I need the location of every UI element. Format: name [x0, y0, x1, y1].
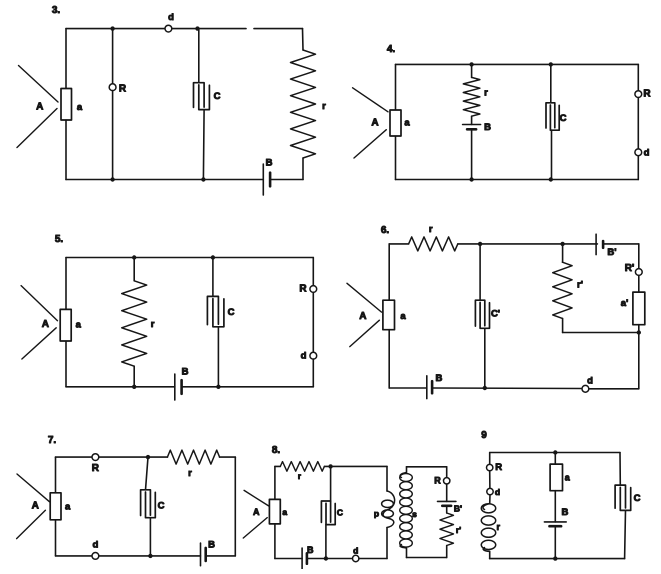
wire top (fig4) — [396, 63, 639, 65]
wire C lead bottom (fig8) — [325, 525, 327, 559]
battery B (fig9) — [544, 507, 568, 526]
svg-text:5.: 5. — [55, 234, 64, 245]
figure label 8 — [272, 445, 281, 456]
wire bottom left (fig6) — [389, 387, 427, 389]
wire r' lead bottom (fig8) — [446, 546, 448, 558]
coil s (fig8) — [400, 473, 417, 549]
wire left upper (fig7) — [55, 457, 57, 493]
contact d (fig7) — [92, 539, 99, 559]
svg-text:B: B — [307, 545, 314, 555]
svg-text:A: A — [371, 117, 378, 128]
svg-text:a': a' — [621, 298, 629, 309]
svg-text:C: C — [634, 493, 641, 504]
node d (fig3) — [165, 12, 174, 32]
contact R (fig8) — [434, 475, 450, 485]
wire r' lead bottom (fig6) — [562, 318, 564, 332]
antenna A (fig4) — [353, 88, 388, 158]
svg-text:B: B — [266, 158, 273, 169]
contact d (fig6) — [582, 376, 593, 393]
wire bottom left (fig8) — [275, 558, 302, 560]
wire left bottom (fig9) — [489, 551, 491, 558]
capacitor C' (fig6) — [475, 300, 500, 328]
wire C lead bottom (fig3) — [202, 110, 205, 180]
junction bottom-R (fig3) — [110, 177, 114, 181]
svg-text:C: C — [560, 113, 567, 124]
svg-text:B: B — [435, 373, 442, 384]
wire left upper (fig8) — [274, 466, 276, 499]
resistor r (fig7) — [167, 450, 219, 479]
wire right middle (fig4) — [637, 98, 639, 149]
antenna A (fig7) — [17, 474, 50, 539]
svg-text:B': B' — [454, 504, 462, 514]
junction top-rB (fig4) — [469, 62, 473, 66]
resistor box a (fig7) — [50, 493, 71, 520]
wire bottom left (fig5) — [66, 386, 175, 388]
svg-text:A: A — [36, 102, 43, 113]
figure label 6 — [381, 225, 390, 236]
svg-text:R': R' — [625, 263, 635, 274]
wire bottom left (fig7) — [56, 555, 93, 557]
wire bottom (fig4) — [396, 179, 639, 181]
junction bottom-C (fig4) — [549, 177, 553, 181]
svg-text:R: R — [92, 463, 100, 474]
wire right upper (fig9) — [619, 453, 621, 486]
wire r'-a' link (fig6) — [563, 332, 639, 334]
wire right upper (fig8) — [386, 466, 388, 491]
wire C lead top (fig4) — [550, 64, 552, 102]
contact R (fig4) — [635, 89, 651, 100]
svg-text:s: s — [412, 509, 417, 519]
wire right lower (fig9) — [624, 510, 627, 558]
antenna A (fig8) — [243, 490, 268, 538]
svg-text:A: A — [253, 507, 260, 517]
resistor box a (fig5) — [60, 309, 81, 341]
svg-text:C: C — [214, 91, 221, 102]
figure label 4 — [387, 44, 396, 55]
wire right lower (fig5) — [312, 359, 314, 387]
wire right lower (fig4) — [637, 156, 639, 180]
wire bottom mid (fig8) — [307, 558, 352, 560]
contact R' (fig6) — [625, 263, 643, 276]
resistor r (fig4) — [463, 77, 488, 116]
junction top-C (fig8) — [328, 464, 332, 468]
coil p (fig8) — [374, 491, 395, 528]
wire right upper (fig3) — [302, 29, 305, 50]
figure label 9 — [481, 430, 487, 441]
wire sec left top (fig8) — [406, 467, 408, 473]
resistor r (fig6) — [409, 224, 458, 251]
contact R (fig9) — [487, 462, 503, 473]
junction top-R (fig3) — [110, 26, 114, 30]
contact d (fig8) — [353, 545, 359, 561]
wire r' lead top (fig6) — [562, 244, 564, 262]
wire branch R lower (fig3) — [112, 91, 114, 180]
junction bottom-C (fig8) — [324, 556, 328, 560]
junction top-C (fig5) — [211, 255, 215, 259]
resistor box a' (fig6) — [621, 292, 645, 325]
svg-text:9: 9 — [481, 430, 487, 441]
wire right upper (fig6) — [638, 244, 640, 269]
wire top right (fig8) — [324, 465, 387, 467]
junction bottom-rB (fig4) — [469, 177, 473, 181]
wire left lower (fig7) — [55, 520, 57, 556]
wire right upper (fig5) — [312, 258, 314, 286]
contact R (fig5) — [299, 284, 316, 295]
wire a-battery (fig9) — [554, 491, 556, 522]
battery B (fig7) — [201, 539, 216, 565]
wire top mid (fig6) — [458, 243, 598, 245]
capacitor C (fig3) — [194, 83, 221, 110]
figure label 3 — [52, 5, 61, 16]
junction bottom-a (fig9) — [553, 556, 557, 560]
wire left upper (fig4) — [395, 64, 397, 110]
figure label 7 — [48, 435, 57, 446]
junction top-a (fig9) — [553, 450, 557, 454]
wire left lower (fig3) — [65, 120, 67, 180]
wire top right (fig7) — [220, 456, 236, 458]
wire r lead bottom (fig5) — [133, 366, 135, 387]
resistor box a (fig4) — [390, 110, 410, 136]
svg-text:r: r — [497, 522, 501, 532]
wire top (fig5) — [66, 257, 313, 259]
wire C lead top (fig8) — [330, 466, 332, 501]
battery B (fig3) — [263, 158, 272, 196]
battery B (fig5) — [175, 367, 189, 401]
svg-text:R: R — [495, 462, 502, 473]
junction bottom-C (fig7) — [148, 554, 152, 558]
svg-text:7.: 7. — [48, 435, 57, 446]
svg-text:3.: 3. — [52, 5, 61, 16]
junction bottom-r (fig5) — [132, 385, 136, 389]
wire sec left bottom (fig8) — [406, 548, 408, 558]
wire C' lead top (fig6) — [479, 244, 481, 300]
antenna A (fig6) — [347, 283, 382, 346]
svg-text:d: d — [353, 545, 358, 555]
resistor box a (fig8) — [269, 499, 287, 524]
wire right lower (fig6) — [638, 325, 640, 389]
battery B (fig6) — [427, 373, 443, 399]
wire C lead top (fig7) — [146, 457, 149, 490]
svg-text:d: d — [495, 487, 500, 497]
svg-text:a: a — [76, 320, 82, 331]
capacitor C (fig8) — [321, 501, 343, 525]
contact R (fig3) — [109, 84, 127, 95]
svg-text:C: C — [158, 500, 165, 511]
resistor box a (fig3) — [61, 89, 83, 121]
battery B (fig4) — [463, 122, 491, 133]
battery B (fig8) — [302, 545, 314, 569]
resistor r (fig8) — [280, 462, 324, 481]
wire bottom right (fig5) — [182, 386, 314, 388]
svg-text:d: d — [644, 147, 650, 158]
junction bottom-C' (fig6) — [483, 386, 487, 390]
junction top-C (fig4) — [549, 62, 553, 66]
antenna A (fig3) — [17, 66, 58, 148]
wire sec right upper (fig8) — [446, 467, 448, 478]
wire C lead bottom (fig7) — [149, 518, 151, 556]
wire C' lead bottom (fig6) — [484, 328, 486, 388]
figure label 5 — [55, 234, 64, 245]
contact d (fig5) — [301, 351, 317, 362]
capacitor C (fig4) — [546, 103, 567, 130]
svg-text:R: R — [434, 475, 441, 485]
wire battery-right (fig3) — [270, 179, 303, 181]
wire top right (fig6) — [603, 243, 639, 245]
wire bottom right (fig6) — [589, 388, 639, 390]
svg-text:a: a — [400, 311, 406, 322]
capacitor C (fig7) — [141, 490, 165, 518]
svg-text:r: r — [484, 88, 488, 99]
svg-text:d: d — [168, 12, 174, 23]
junction bottom-C (fig3) — [201, 177, 205, 181]
svg-text:p: p — [374, 509, 379, 519]
wire C lead bottom (fig4) — [551, 130, 553, 179]
resistor r (fig5) — [122, 281, 155, 366]
wire right middle (fig5) — [312, 292, 314, 352]
wire left mid (fig9) — [489, 471, 491, 488]
svg-text:C: C — [337, 508, 343, 518]
junction top-C' (fig6) — [478, 242, 482, 246]
junction top-C (fig7) — [146, 455, 150, 459]
wire left lower (fig6) — [388, 330, 390, 388]
wire right (fig7) — [234, 457, 236, 556]
resistor box a (fig6) — [383, 300, 406, 330]
svg-text:d: d — [301, 351, 307, 362]
contact R (fig7) — [92, 454, 100, 474]
resistor box a (fig9) — [550, 464, 571, 491]
wire C lead top (fig5) — [212, 258, 214, 297]
contact d (fig9) — [487, 487, 500, 497]
svg-text:r: r — [298, 472, 301, 481]
svg-text:B: B — [208, 539, 215, 550]
svg-text:C: C — [228, 307, 235, 318]
wire left lower (fig5) — [65, 341, 67, 387]
svg-text:r: r — [429, 224, 433, 235]
wire top left (fig7) — [56, 456, 93, 458]
svg-text:B': B' — [607, 247, 616, 258]
svg-text:4.: 4. — [387, 44, 396, 55]
wire C lead top (fig3) — [198, 29, 200, 83]
wire rB lead bottom (fig4) — [471, 129, 473, 179]
wire rB lead top (fig4) — [471, 64, 473, 77]
junction a'-r' (fig6) — [637, 330, 641, 334]
wire left lower (fig9) — [489, 495, 491, 504]
svg-text:a: a — [77, 102, 83, 113]
resistor r (fig3) — [291, 50, 327, 158]
wire right upper (fig4) — [637, 64, 639, 90]
wire top (fig8 sec) — [407, 466, 447, 468]
svg-text:R: R — [299, 284, 307, 295]
svg-text:d: d — [92, 539, 98, 550]
wire top left corner (fig8) — [275, 465, 280, 467]
wire top (fig9) — [490, 452, 620, 454]
wire bottom mid (fig7) — [99, 555, 201, 557]
junction top-r' (fig6) — [560, 242, 564, 246]
svg-text:a: a — [404, 117, 410, 128]
svg-text:a: a — [65, 502, 71, 513]
svg-text:6.: 6. — [381, 225, 390, 236]
svg-text:B: B — [561, 507, 568, 518]
wire left upper (fig6) — [388, 244, 390, 300]
wire r-battery (fig4) — [471, 116, 473, 124]
wire bottom (fig9) — [490, 558, 625, 560]
wire B'-r' (fig8) — [446, 506, 448, 513]
svg-text:a: a — [282, 507, 287, 517]
svg-text:A: A — [42, 319, 49, 330]
wire a lead top (fig9) — [554, 453, 556, 465]
svg-text:r': r' — [456, 525, 461, 535]
resistor r' (fig6) — [553, 262, 583, 318]
capacitor C (fig5) — [207, 296, 234, 326]
wire C lead bottom (fig5) — [217, 327, 219, 387]
wire top (fig3) — [66, 28, 303, 30]
capacitor C (fig9) — [615, 485, 640, 510]
svg-text:8.: 8. — [272, 445, 281, 456]
wire sec right mid (fig8) — [446, 484, 448, 501]
svg-text:r': r' — [577, 280, 583, 291]
svg-text:R: R — [643, 89, 651, 100]
svg-text:r: r — [151, 319, 155, 330]
junction top-r (fig5) — [132, 255, 136, 259]
contact d (fig4) — [635, 147, 650, 158]
wire left lower (fig4) — [395, 136, 397, 180]
wire left lower (fig8) — [274, 524, 276, 559]
antenna A (fig5) — [21, 286, 57, 359]
wire right lower (fig3) — [302, 158, 304, 180]
wire bottom mid (fig6) — [432, 387, 582, 390]
wire right mid (fig6) — [638, 275, 640, 292]
svg-text:A: A — [32, 501, 39, 512]
wire left upper (fig3) — [65, 29, 67, 89]
svg-text:B: B — [182, 367, 189, 378]
wire right lower (fig8) — [386, 528, 388, 559]
wire bottom right (fig7) — [206, 555, 236, 557]
wire branch R upper (fig3) — [112, 29, 114, 84]
wire left upper (fig9) — [489, 453, 491, 465]
battery B' (fig8) — [438, 501, 463, 513]
junction bottom-C (fig5) — [216, 385, 220, 389]
battery B' (fig6) — [596, 234, 616, 258]
svg-text:A: A — [359, 311, 366, 322]
svg-text:B: B — [484, 122, 491, 133]
coil r (fig9) — [481, 504, 500, 552]
wire battery lead bottom (fig9) — [554, 526, 556, 558]
wire r lead top (fig5) — [133, 258, 135, 281]
wire bottom right (fig8) — [359, 558, 387, 560]
junction top-C (fig3) — [195, 26, 199, 30]
svg-text:r: r — [188, 468, 192, 479]
wire bottom (fig3) — [66, 179, 263, 181]
svg-text:C': C' — [491, 309, 500, 320]
svg-text:d: d — [587, 376, 593, 387]
svg-text:R: R — [119, 84, 127, 95]
wire bottom (fig8 sec) — [407, 557, 447, 559]
svg-text:r: r — [322, 101, 326, 112]
wire left upper (fig5) — [65, 258, 67, 310]
resistor r' (fig8) — [440, 513, 461, 546]
wire top left (fig6) — [389, 243, 408, 245]
wire top mid (fig7) — [99, 456, 168, 458]
